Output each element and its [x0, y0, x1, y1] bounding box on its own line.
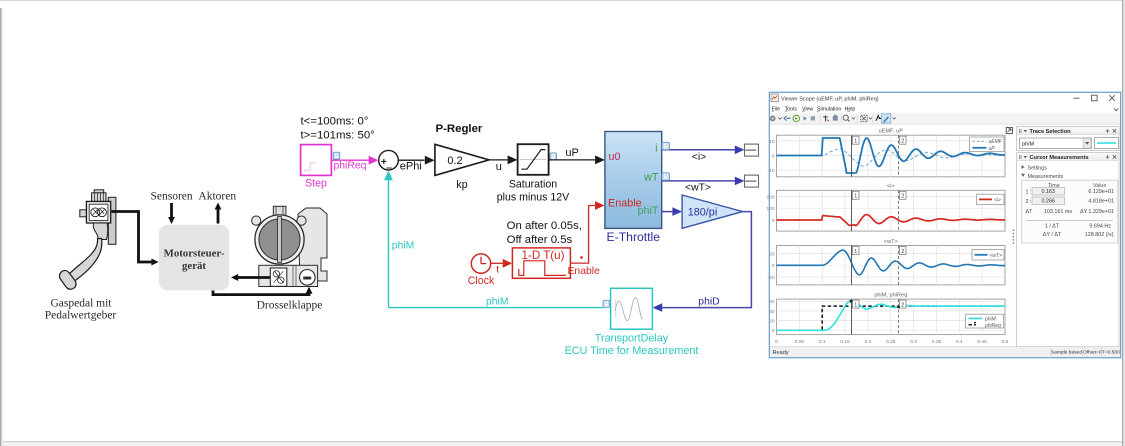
svg-text:1: 1: [854, 139, 857, 145]
svg-text:phiT: phiT: [637, 205, 658, 217]
svg-text:ECU Time for Measurement: ECU Time for Measurement: [565, 345, 699, 357]
svg-text:60: 60: [769, 299, 775, 305]
svg-text:1: 1: [854, 302, 857, 308]
svg-text:Gaspedal mit: Gaspedal mit: [51, 298, 113, 310]
svg-text:0.2: 0.2: [865, 339, 872, 345]
svg-text:phiReq: phiReq: [984, 323, 1001, 329]
svg-text:Measurements: Measurements: [1028, 174, 1064, 180]
svg-text:0: 0: [772, 153, 775, 159]
svg-text:On after 0.05s,: On after 0.05s,: [507, 220, 582, 232]
svg-text:Sample based: Sample based: [1051, 350, 1083, 356]
svg-text:DKG: DKG: [304, 276, 312, 280]
svg-text:T=0.500: T=0.500: [1102, 350, 1120, 356]
svg-text:0: 0: [772, 263, 775, 269]
svg-text:Drosselklappe: Drosselklappe: [257, 299, 323, 311]
svg-text:103.161 ms: 103.161 ms: [1044, 209, 1072, 215]
svg-text:<wT>: <wT>: [884, 239, 898, 245]
svg-text:0.35: 0.35: [932, 339, 942, 345]
svg-text:-10: -10: [768, 168, 775, 174]
svg-text:ΔY / ΔT: ΔY / ΔT: [1043, 232, 1062, 238]
svg-text:0: 0: [772, 328, 775, 334]
svg-text:uEMF, uP: uEMF, uP: [879, 128, 904, 134]
svg-text:Sensoren Aktoren: Sensoren Aktoren: [151, 191, 237, 203]
svg-text:128.802 (/s): 128.802 (/s): [1085, 232, 1114, 238]
svg-text:Off after 0.5s: Off after 0.5s: [507, 234, 573, 246]
svg-text:40: 40: [769, 309, 775, 315]
svg-text:Cursor Measurements: Cursor Measurements: [1030, 155, 1089, 161]
svg-text:Step: Step: [305, 177, 327, 189]
svg-text:0.45: 0.45: [977, 339, 987, 345]
svg-text:6.129e+01: 6.129e+01: [1088, 189, 1114, 195]
svg-text:180/pi: 180/pi: [688, 207, 717, 219]
svg-text:2: 2: [901, 302, 904, 308]
svg-text:P-Regler: P-Regler: [436, 123, 483, 135]
svg-text:2: 2: [901, 139, 904, 145]
svg-text:u0: u0: [609, 151, 621, 163]
svg-text:ΔT: ΔT: [1026, 209, 1034, 215]
svg-text:0.05: 0.05: [795, 339, 805, 345]
svg-text:t<=100ms: 0°: t<=100ms: 0°: [301, 116, 369, 128]
svg-text:0.3: 0.3: [910, 339, 917, 345]
svg-text:0.1: 0.1: [819, 339, 826, 345]
svg-text:Clock: Clock: [468, 275, 495, 287]
svg-text:Help: Help: [845, 106, 856, 112]
svg-text:uP: uP: [565, 147, 578, 159]
svg-text:Settings: Settings: [1028, 165, 1048, 171]
svg-text:2: 2: [901, 249, 904, 255]
svg-text:Motorsteuer-: Motorsteuer-: [164, 248, 225, 260]
svg-text:2: 2: [901, 194, 904, 200]
svg-text:20: 20: [769, 252, 775, 258]
svg-text:t: t: [496, 264, 499, 275]
svg-text:<i>: <i>: [887, 184, 895, 190]
svg-text:0.266: 0.266: [1041, 199, 1055, 205]
svg-text:TransportDelay: TransportDelay: [595, 332, 669, 344]
svg-text:9.694 Hz: 9.694 Hz: [1089, 224, 1111, 230]
svg-text:1.329e+01: 1.329e+01: [1088, 209, 1114, 215]
svg-text:uEMF: uEMF: [989, 139, 1003, 145]
svg-text:–: –: [386, 162, 392, 174]
svg-text:plus minus 12V: plus minus 12V: [497, 191, 570, 203]
svg-text:<i>: <i>: [692, 152, 706, 163]
svg-text:ePhi: ePhi: [400, 161, 422, 173]
svg-text:gerät: gerät: [182, 260, 206, 272]
svg-text:Ready: Ready: [773, 350, 789, 356]
svg-text:t>=101ms: 50°: t>=101ms: 50°: [301, 130, 375, 142]
svg-text:0: 0: [772, 218, 775, 224]
svg-text:0: 0: [775, 339, 778, 345]
svg-text:1: 1: [854, 249, 857, 255]
svg-text:<i>: <i>: [994, 197, 1001, 203]
svg-text:Trace Selection: Trace Selection: [1030, 129, 1072, 135]
svg-text:Value: Value: [1093, 183, 1106, 189]
svg-text:<wT>: <wT>: [990, 253, 1003, 259]
svg-text:0.4: 0.4: [956, 339, 963, 345]
svg-text:ΔY: ΔY: [1080, 209, 1088, 215]
svg-text:i: i: [655, 142, 657, 154]
svg-text:100: 100: [766, 206, 774, 212]
svg-text:File: File: [772, 106, 780, 112]
svg-text:-20: -20: [768, 275, 775, 281]
svg-text:10: 10: [769, 139, 775, 145]
svg-text:1 :: 1 :: [1026, 189, 1032, 195]
svg-text:Tools: Tools: [785, 106, 798, 112]
svg-text:E-Throttle: E-Throttle: [607, 230, 661, 244]
svg-text:1: 1: [854, 194, 857, 200]
svg-text:kp: kp: [456, 179, 467, 191]
svg-text:0.15: 0.15: [840, 339, 850, 345]
svg-text:phiD: phiD: [698, 296, 719, 307]
svg-text:wT: wT: [643, 171, 659, 183]
svg-text:phiM: phiM: [486, 296, 509, 307]
svg-text:phiM, phiReq: phiM, phiReq: [874, 292, 907, 298]
svg-text:0.2: 0.2: [447, 155, 462, 167]
svg-text:phiM: phiM: [1022, 142, 1034, 148]
svg-text:200: 200: [766, 194, 774, 200]
svg-text:0.5: 0.5: [1002, 339, 1009, 345]
svg-text:20: 20: [769, 319, 775, 325]
svg-text:Pedalwertgeber: Pedalwertgeber: [45, 309, 117, 321]
svg-text:<wT>: <wT>: [685, 182, 711, 193]
svg-text:Offset=0: Offset=0: [1083, 350, 1102, 356]
svg-text:Enable: Enable: [568, 266, 601, 277]
svg-text:phiReq: phiReq: [334, 161, 367, 172]
svg-text:phiM: phiM: [984, 316, 997, 322]
svg-text:4.818e+01: 4.818e+01: [1088, 199, 1114, 205]
svg-text:u: u: [496, 161, 502, 173]
svg-text:0.163: 0.163: [1041, 189, 1055, 195]
svg-text:2 :: 2 :: [1026, 199, 1032, 205]
svg-text:Simulation: Simulation: [817, 106, 841, 112]
svg-text:uP: uP: [989, 146, 996, 152]
svg-text:0.25: 0.25: [886, 339, 896, 345]
svg-text:phiM: phiM: [392, 240, 415, 251]
svg-text:View: View: [802, 106, 813, 112]
svg-text:Saturation: Saturation: [509, 178, 557, 190]
svg-text:Viewer Scope (uEMF, uP, phiM,: Viewer Scope (uEMF, uP, phiM, phiReq): [781, 96, 879, 102]
svg-text:1 / ΔT: 1 / ΔT: [1045, 224, 1060, 230]
